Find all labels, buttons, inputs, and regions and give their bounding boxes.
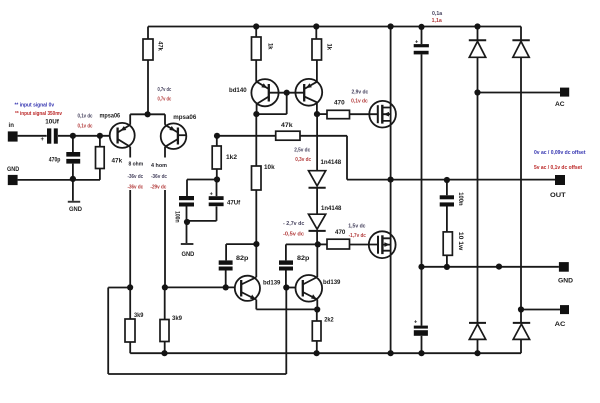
node top rail at filter cap bbox=[418, 24, 424, 30]
svg-text:0,1v dc: 0,1v dc bbox=[78, 123, 93, 129]
svg-text:-36v dc: -36v dc bbox=[128, 184, 144, 190]
svg-text:OUT: OUT bbox=[550, 192, 567, 199]
svg-text:5v ac / 0,1v dc offset: 5v ac / 0,1v dc offset bbox=[534, 165, 582, 171]
node bottom rail diode column bbox=[474, 350, 480, 356]
wire 1k R3 stems bbox=[315, 27, 318, 82]
wire base Q6 bbox=[286, 287, 295, 289]
svg-text:3k9: 3k9 bbox=[172, 315, 183, 322]
wire output rail bbox=[347, 179, 555, 181]
wire Q1 collector stem bbox=[129, 114, 131, 125]
wire bd140 Q4 collector stem bbox=[316, 102, 318, 114]
wire Q1 emitter long bbox=[129, 147, 131, 288]
wire diode chain lower bbox=[316, 231, 318, 245]
resistor 47k R1 bbox=[143, 39, 153, 60]
node base Q6 / feedback bbox=[283, 284, 289, 290]
svg-text:bd140: bd140 bbox=[229, 87, 247, 94]
resistor 47k R7 bbox=[276, 131, 300, 140]
svg-text:-0,5v dc: -0,5v dc bbox=[283, 232, 304, 238]
wire ground rail right bbox=[422, 266, 559, 268]
wire diode column D3 bottom stub bbox=[477, 339, 479, 353]
node gnd left / 470p bbox=[70, 176, 76, 182]
wire 470 R9 left bbox=[318, 243, 327, 245]
node 1k2 bottom bbox=[214, 176, 220, 182]
node out rail zobel bbox=[444, 177, 450, 183]
capacitor C5 82p bbox=[219, 260, 233, 264]
transistor Q6 bd139 bbox=[296, 275, 323, 302]
wire filter cap column middle bbox=[421, 54, 423, 325]
svg-text:+: + bbox=[414, 320, 418, 326]
ground symbol 2 bbox=[181, 243, 194, 245]
wire top supply rail bbox=[148, 26, 521, 28]
node bottom rail 2k2 bbox=[314, 350, 320, 356]
svg-text:100n: 100n bbox=[174, 211, 181, 223]
node Q1 emitter bbox=[127, 284, 133, 290]
resistor 470 R8 bbox=[327, 110, 350, 118]
mosfet M2 (P-channel) bbox=[369, 231, 396, 258]
svg-text:1,1a: 1,1a bbox=[432, 18, 443, 24]
wire bottom rail bbox=[130, 352, 521, 354]
svg-text:100n: 100n bbox=[457, 192, 464, 206]
wire 100n C3 to gnd bbox=[186, 207, 188, 244]
node top rail at mosfet column bbox=[388, 23, 394, 29]
wire diode column D1 top stub bbox=[477, 27, 479, 41]
resistor 10 1w R13 bbox=[443, 232, 452, 255]
capacitor C3 100n bbox=[179, 196, 194, 200]
wire right rail main segment bbox=[520, 57, 522, 323]
svg-text:mpsa06: mpsa06 bbox=[173, 114, 197, 121]
wire filter cap column top bbox=[421, 27, 423, 45]
wire Q2 emitter long bbox=[164, 147, 166, 288]
node gnd rail stub bbox=[496, 264, 502, 270]
resistor 10k R6 bbox=[252, 166, 262, 190]
svg-text:GND: GND bbox=[558, 278, 574, 285]
svg-text:0,1a: 0,1a bbox=[432, 11, 443, 17]
svg-text:GND: GND bbox=[182, 251, 195, 258]
wire resistor 47k R1 top stem bbox=[147, 27, 149, 40]
diode D5 1n4148 bbox=[309, 171, 326, 188]
CAPACITORS bbox=[47, 44, 454, 336]
svg-text:-29v dc: -29v dc bbox=[150, 184, 166, 190]
node AC1 pick bbox=[474, 89, 480, 95]
svg-text:4 hom: 4 hom bbox=[151, 163, 167, 169]
TERMINALS bbox=[8, 88, 569, 315]
svg-text:AC: AC bbox=[555, 321, 566, 328]
ground symbol 1 bbox=[68, 201, 80, 203]
resistor 1k2 R5 bbox=[212, 146, 221, 169]
RESISTORS (white boxes) bbox=[96, 37, 453, 342]
wire diode chain upper bbox=[316, 114, 318, 171]
wire emitter join rail bbox=[256, 308, 317, 310]
resistor 3k9 R11 bbox=[160, 320, 169, 342]
diode D4 (clamp, up) bbox=[513, 323, 530, 340]
svg-text:2k2: 2k2 bbox=[324, 317, 334, 324]
node cap gnd join bbox=[184, 219, 190, 225]
wire 2k2 R12 stems bbox=[316, 310, 318, 354]
svg-text:47k: 47k bbox=[112, 157, 123, 164]
wire feedback loop bbox=[108, 288, 286, 375]
resistor 470 R9 bbox=[327, 239, 350, 249]
resistor 1k R2 bbox=[252, 37, 262, 60]
wire 470 R9 to gate M2 bbox=[350, 244, 378, 246]
wire 1k2 R5 stems bbox=[216, 136, 218, 180]
node gnd rail zobel bbox=[444, 264, 450, 270]
wire Q5 emitter down bbox=[255, 300, 257, 310]
svg-text:** input signal 0v: ** input signal 0v bbox=[15, 103, 55, 109]
node out rail mosfet bbox=[388, 177, 394, 183]
svg-text:1k: 1k bbox=[326, 44, 333, 51]
wire 47Uf C4 top stem bbox=[216, 180, 218, 197]
svg-text:AC: AC bbox=[555, 101, 565, 108]
wire bd140 mirror tie bbox=[257, 93, 296, 114]
diode D2 (clamp, up) bbox=[512, 40, 529, 57]
terminal gnd left bbox=[8, 175, 18, 185]
svg-text:470p: 470p bbox=[49, 156, 61, 163]
mosfet M1 (N-channel) bbox=[369, 101, 396, 128]
wire gnd-left terminal bbox=[18, 179, 100, 181]
wire right rail upper (above diode D2) bbox=[520, 27, 522, 41]
node gnd rail filter cap bbox=[418, 264, 424, 270]
wire bd140 Q3 collector to node bbox=[256, 104, 258, 114]
svg-text:47Uf: 47Uf bbox=[227, 200, 241, 207]
node bottom rail 3k9 R11 bbox=[161, 350, 167, 356]
svg-text:- 2,7v dc: - 2,7v dc bbox=[283, 221, 304, 227]
wire cap C1 to base Q1 bbox=[58, 135, 110, 137]
node VAS top bbox=[314, 111, 320, 117]
svg-text:bd139: bd139 bbox=[323, 279, 341, 286]
wire 1k R2 stems bbox=[255, 27, 257, 82]
node diode bottom / 470 R9 bbox=[315, 241, 321, 247]
svg-text:GND: GND bbox=[69, 206, 83, 213]
wire node B to 100n C3 bbox=[187, 180, 217, 197]
wire feedback 47k R7 left feed bbox=[217, 135, 276, 137]
capacitor C9 supply bbox=[414, 326, 428, 329]
transistor Q1 mpsa06 bbox=[110, 123, 135, 148]
svg-text:in: in bbox=[9, 122, 15, 129]
svg-text:-1,7v dc: -1,7v dc bbox=[349, 233, 366, 239]
svg-text:3k9: 3k9 bbox=[134, 312, 144, 319]
transistor Q2 mpsa06 (mirrored) bbox=[161, 123, 187, 149]
wire resistor 47k R1 bottom stem bbox=[147, 60, 149, 114]
resistor 1k R3 bbox=[312, 39, 322, 60]
svg-text:0,1v dc: 0,1v dc bbox=[78, 113, 93, 119]
svg-text:bd139: bd139 bbox=[263, 280, 281, 287]
resistor 3k9 R10 bbox=[125, 319, 135, 342]
wire 82p C6 link bbox=[286, 244, 318, 287]
svg-text:+: + bbox=[41, 137, 45, 143]
capacitor C4 47Uf bbox=[209, 196, 224, 200]
svg-text:0,7v dc: 0,7v dc bbox=[158, 97, 172, 103]
wire Q5 collector stem bbox=[255, 244, 257, 277]
wire Q6 emitter down bbox=[316, 299, 318, 309]
node input cap / 470p bbox=[70, 133, 76, 139]
node emitters / 2k2 top bbox=[314, 306, 320, 312]
capacitor C8 zobel 100n bbox=[440, 195, 454, 199]
node 47k R1 collector bus bbox=[145, 111, 151, 117]
svg-text:1,5v dc: 1,5v dc bbox=[348, 223, 365, 229]
wire 470p C2 stems bbox=[72, 136, 74, 201]
svg-text:0,3v dc: 0,3v dc bbox=[295, 157, 311, 163]
wire AC1 terminal bbox=[478, 92, 561, 94]
wire 3k9 R10 stems bbox=[129, 287, 131, 353]
transistor Q3 bd140 bbox=[251, 79, 278, 106]
svg-text:GND: GND bbox=[7, 166, 20, 173]
svg-text:82p: 82p bbox=[236, 255, 249, 262]
svg-text:0v ac / 0,09v dc offset: 0v ac / 0,09v dc offset bbox=[534, 150, 586, 156]
svg-text:47k: 47k bbox=[157, 41, 164, 51]
wire filter cap column bottom bbox=[421, 336, 423, 353]
svg-text:1n4148: 1n4148 bbox=[321, 159, 342, 166]
svg-text:470: 470 bbox=[335, 229, 346, 236]
text mask plates bbox=[126, 158, 145, 191]
svg-text:0,1v dc: 0,1v dc bbox=[351, 99, 368, 105]
node AC2 pick bbox=[518, 306, 524, 312]
resistor 2k2 R12 bbox=[312, 321, 321, 341]
wire input terminal to cap bbox=[18, 135, 47, 137]
wire right rail lower (below diode D4) bbox=[520, 339, 522, 353]
svg-text:1k: 1k bbox=[267, 43, 274, 50]
transistor Q5 bd139 bbox=[235, 276, 260, 301]
svg-text:1k2: 1k2 bbox=[226, 154, 238, 161]
wire 47k R7 right to bend bbox=[300, 136, 347, 180]
svg-text:2,9v dc: 2,9v dc bbox=[352, 90, 369, 96]
node bottom rail filter cap bbox=[418, 350, 424, 356]
wire Q2 collector stem bbox=[164, 114, 166, 125]
node 10k bottom VAS bbox=[253, 241, 259, 247]
svg-text:mpsa06: mpsa06 bbox=[100, 112, 121, 119]
svg-text:** input signal 350mv: ** input signal 350mv bbox=[15, 111, 62, 117]
resistor 47k R4 bbox=[96, 147, 105, 169]
diode D1 (clamp, up) bbox=[469, 40, 486, 57]
capacitor C6 82p bbox=[279, 260, 293, 264]
wire Q2 emitter to base Q5 bbox=[165, 286, 235, 288]
capacitor C7 supply bbox=[414, 44, 429, 47]
svg-text:82p: 82p bbox=[297, 255, 310, 262]
wire 10k R6 stems bbox=[255, 114, 257, 244]
transistor Q4 bd140 (mirrored) bbox=[295, 79, 322, 106]
svg-text:1n4148: 1n4148 bbox=[321, 205, 342, 212]
wire 470 R8 to gate M1 bbox=[350, 113, 378, 115]
svg-text:47k: 47k bbox=[281, 122, 293, 129]
node top rail at 1k R3 bbox=[313, 23, 319, 29]
capacitor C1 10Uf bbox=[47, 128, 51, 143]
svg-text:470: 470 bbox=[334, 100, 345, 107]
wire mosfet drain-source column bbox=[390, 27, 392, 354]
capacitor C2 470p bbox=[66, 152, 80, 157]
node top rail at 1k R2 bbox=[253, 23, 259, 29]
terminal in bbox=[8, 131, 18, 141]
wire collector bus of input pair bbox=[130, 113, 165, 115]
wire 3k9 R11 stems bbox=[164, 287, 166, 353]
svg-text:-36v dc: -36v dc bbox=[151, 174, 167, 180]
node base Q1 / 47k R4 bbox=[97, 133, 103, 139]
node bd140 mirror collector bbox=[253, 111, 259, 117]
wire 82p C5 link bbox=[226, 244, 257, 287]
wire zobel stems bbox=[446, 180, 448, 267]
node Q2 emitter bbox=[162, 284, 168, 290]
wire between diodes D5 D6 bbox=[316, 188, 318, 214]
wire 47Uf C4 bottom to gnd node bbox=[187, 206, 217, 221]
node top rail at diode column bbox=[474, 23, 480, 29]
wire diode column D1/D3 long segment bbox=[477, 57, 479, 323]
node bd140 bases bbox=[284, 90, 290, 96]
wire Q6 collector stem bbox=[316, 244, 318, 277]
svg-text:10Uf: 10Uf bbox=[45, 118, 60, 125]
wire 47k R4 stems bbox=[99, 136, 101, 180]
svg-text:2,5v dc: 2,5v dc bbox=[294, 147, 310, 153]
node base Q5 / 82p bbox=[223, 284, 229, 290]
node base Q2 / 1k2 top bbox=[214, 133, 220, 139]
node bottom rail mosfet column bbox=[388, 350, 394, 356]
diode D3 (clamp, up) bbox=[469, 323, 486, 340]
svg-text:10 1w: 10 1w bbox=[457, 232, 464, 251]
svg-text:-36v dc: -36v dc bbox=[128, 174, 144, 180]
wire AC2 terminal bbox=[521, 309, 560, 311]
diode D6 1n4148 bbox=[309, 214, 326, 231]
wire 470 R8 left bbox=[317, 113, 327, 115]
svg-text:10k: 10k bbox=[264, 164, 275, 171]
terminal AC1 bbox=[560, 88, 569, 97]
terminal OUT bbox=[555, 175, 565, 185]
svg-text:0,7v dc: 0,7v dc bbox=[158, 87, 172, 93]
terminal AC2 bbox=[560, 305, 569, 314]
svg-text:8 ohm: 8 ohm bbox=[129, 161, 144, 167]
terminal GND right bbox=[559, 262, 569, 272]
